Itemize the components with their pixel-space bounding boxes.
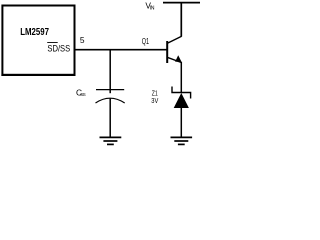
node Vin label xyxy=(145,1,154,12)
ground (Z1) xyxy=(171,137,193,144)
wire : Css to ground xyxy=(109,99,111,138)
ground (Css) xyxy=(100,137,122,144)
wire : rail down to collector xyxy=(180,3,182,37)
svg-text:Q1: Q1 xyxy=(142,37,150,46)
wire : pin 5 to Q1 base xyxy=(75,49,167,51)
wire : zener to ground xyxy=(180,108,182,137)
diode Z1 : zener xyxy=(172,87,191,109)
wire : Vin rail xyxy=(163,2,201,4)
svg-text:LM2597: LM2597 xyxy=(20,27,49,38)
wire : emitter down to zener xyxy=(180,62,182,93)
svg-text:IN: IN xyxy=(150,6,155,12)
svg-text:5: 5 xyxy=(80,35,85,45)
svg-text:SS: SS xyxy=(80,92,85,97)
label Z1 3V xyxy=(151,89,159,105)
label Css xyxy=(76,88,86,98)
wire : junction down to Css xyxy=(109,50,111,93)
IC U1 LM2597 regulator box xyxy=(2,6,74,75)
transistor Q1 xyxy=(167,36,182,63)
svg-text:3V: 3V xyxy=(151,96,159,105)
capacitor Css xyxy=(96,90,125,103)
pin label SD/SS with overline xyxy=(47,43,70,54)
svg-text:SD/SS: SD/SS xyxy=(47,44,70,54)
